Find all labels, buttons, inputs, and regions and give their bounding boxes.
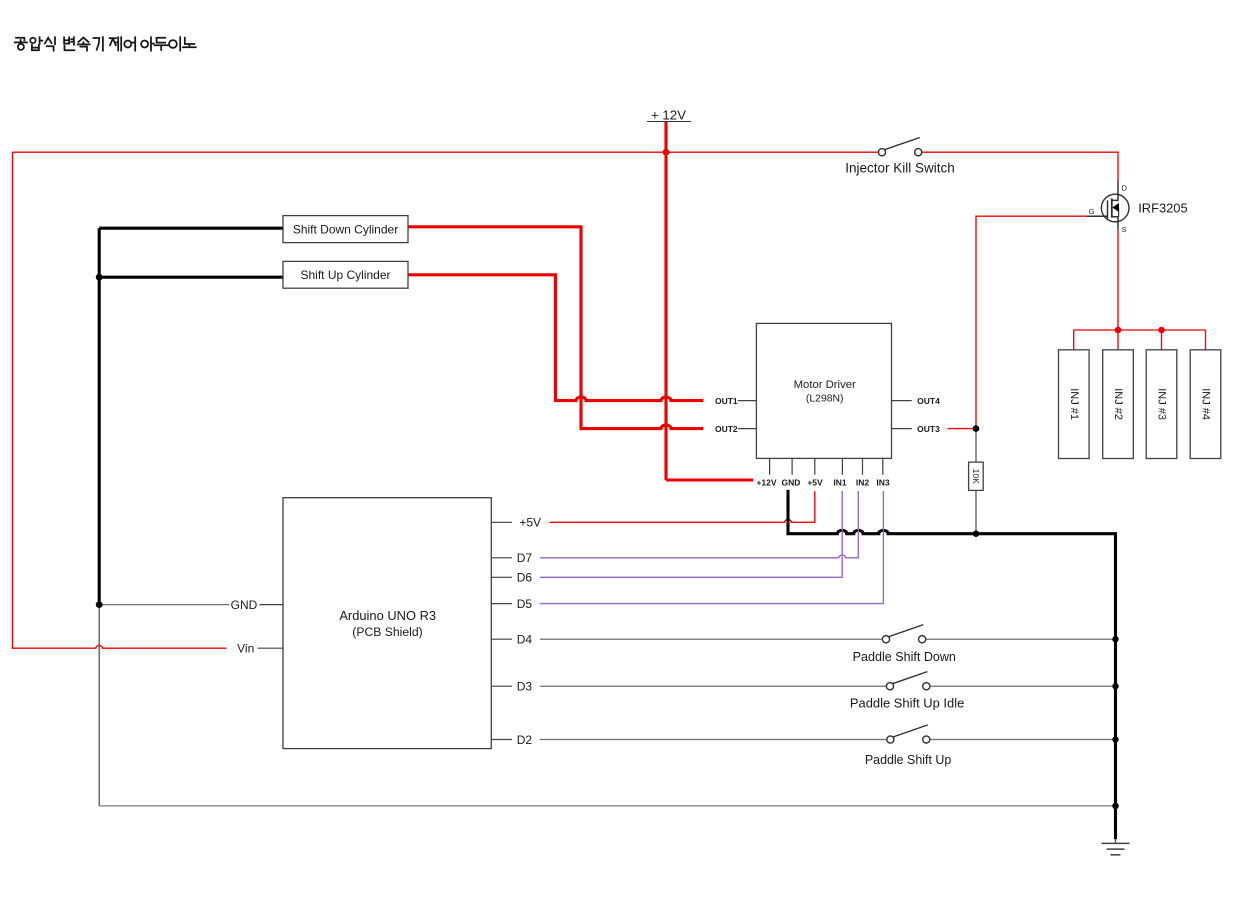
title glyph du (157, 38, 166, 43)
junction injector bus / source feed (1115, 327, 1122, 334)
wire D4 to paddle shift down switch (540, 638, 882, 640)
svg-text:D2: D2 (517, 733, 533, 747)
svg-text:Arduino UNO R3: Arduino UNO R3 (339, 608, 436, 623)
junction paddle shift down / ground rail (1112, 636, 1118, 642)
ground symbol (1102, 839, 1130, 855)
wire ground trunk to bottom ground bus (98, 605, 100, 806)
wire shift up cylinder to ground trunk (99, 276, 283, 279)
wire D7 to driver IN2 (540, 491, 858, 558)
pin stubs driver bottom (+12V GND +5V IN1 IN2 IN3) (770, 458, 883, 474)
injector INJ3 box (1146, 350, 1177, 459)
wire arduino +5V to driver +5V (550, 491, 815, 522)
svg-text:D6: D6 (517, 571, 533, 585)
svg-text:G: G (1089, 207, 1095, 216)
transistor Q1 IRF3205 N-MOSFET symbol (1087, 182, 1129, 230)
wire +12V rail to injector kill switch (13, 151, 879, 153)
wire OUT3 to MOSFET gate (948, 216, 1087, 428)
title glyph byeon (64, 37, 69, 43)
junction pulldown / ground rail (973, 530, 980, 537)
svg-text:(PCB Shield): (PCB Shield) (352, 625, 422, 639)
title glyph a (141, 41, 148, 48)
wire driver GND to ground rail and down to earth (788, 490, 1116, 839)
svg-text:D: D (1122, 184, 1128, 193)
svg-text:IN2: IN2 (856, 478, 870, 488)
pin stubs arduino left (GND Vin) (258, 605, 284, 649)
injector INJ2 box (1103, 350, 1134, 459)
title glyph ap (30, 38, 35, 43)
injector INJ4 box (1190, 350, 1221, 459)
wire paddle shift up idle switch to ground rail (930, 685, 1116, 687)
svg-text:Injector Kill Switch: Injector Kill Switch (845, 160, 955, 175)
wire paddle shift up switch to ground rail (930, 739, 1116, 741)
svg-text:+ 12V: + 12V (651, 108, 686, 123)
svg-text:INJ #2: INJ #2 (1112, 388, 1124, 420)
wire ground trunk to arduino GND pin (99, 604, 229, 606)
wire stub to INJ3 (1161, 330, 1163, 350)
wire injector supply bus (1074, 329, 1206, 331)
svg-text:+5V: +5V (519, 516, 541, 530)
svg-text:GND: GND (782, 478, 801, 488)
svg-text:Paddle Shift Up: Paddle Shift Up (865, 753, 952, 767)
wire left ground trunk vertical (98, 228, 101, 604)
title glyph i (169, 40, 177, 48)
wire stub to INJ2 (1117, 330, 1119, 350)
junction OUT3 / gate / pulldown (973, 425, 980, 432)
svg-text:10K: 10K (971, 469, 981, 484)
svg-text:INJ #4: INJ #4 (1200, 388, 1212, 420)
resistor R1 body (969, 462, 984, 490)
wire left border +12V down to Vin pin (13, 152, 227, 648)
switch SW1 injector kill switch (878, 138, 921, 156)
title glyph gi (94, 38, 100, 50)
junction paddle shift up / ground rail (1112, 736, 1118, 742)
svg-text:D4: D4 (517, 633, 533, 647)
title glyph no (185, 38, 195, 44)
svg-text:Paddle Shift Up Idle: Paddle Shift Up Idle (850, 696, 964, 711)
arduino U2 box (283, 498, 491, 749)
motor driver U1 box (756, 323, 891, 458)
title glyph eo (124, 41, 131, 48)
svg-text:+12V: +12V (756, 478, 776, 488)
switch SW2 paddle shift down (882, 625, 925, 643)
wire D2 to paddle shift up switch (540, 739, 887, 741)
wire bottom ground bus (99, 805, 1115, 807)
svg-text:GND: GND (231, 598, 258, 612)
svg-text:D5: D5 (517, 597, 533, 611)
junction injector bus / INJ3 stub (1158, 327, 1165, 334)
wire stub to INJ1 (1073, 330, 1075, 350)
junction ground trunk / arduino GND (96, 601, 103, 608)
svg-text:INJ #3: INJ #3 (1156, 388, 1168, 420)
pin stubs arduino right (+5V D7 D6 D5 D4 D3 D2) (491, 522, 512, 739)
title glyph sok (78, 38, 88, 42)
svg-text:IN3: IN3 (876, 478, 890, 488)
svg-text:Shift Down Cylinder: Shift Down Cylinder (293, 222, 398, 236)
svg-text:OUT1: OUT1 (715, 396, 738, 406)
svg-text:Shift Up Cylinder: Shift Up Cylinder (300, 268, 390, 282)
wire resistor R1 leads (975, 429, 977, 534)
junction cylinder ground trunk (96, 274, 103, 281)
svg-text:S: S (1122, 225, 1127, 234)
svg-text:Paddle Shift Down: Paddle Shift Down (853, 650, 956, 664)
wire shift down cylinder to OUT2 (408, 227, 703, 429)
title "공압식 변속기 제어 아두이노" (drawn as glyph strokes) (15, 37, 196, 50)
junction bottom bus / earth (1112, 803, 1119, 810)
svg-text:OUT3: OUT3 (917, 424, 940, 434)
wire injector kill switch to MOSFET drain (922, 152, 1118, 181)
wire shift up cylinder to OUT1 (408, 275, 703, 401)
wire D6 to driver IN1 (540, 491, 842, 577)
switch SW4 paddle shift up (887, 725, 930, 743)
wire paddle shift down switch to ground rail (926, 638, 1116, 640)
svg-text:IRF3205: IRF3205 (1138, 200, 1187, 215)
pin stubs driver left (OUT1 OUT2) (738, 401, 757, 429)
wire +12V feed vertical and into driver +12V pin (666, 122, 753, 480)
wire stub to INJ4 (1205, 330, 1207, 350)
svg-text:INJ #1: INJ #1 (1068, 388, 1080, 420)
svg-text:(L298N): (L298N) (806, 394, 844, 405)
svg-text:IN1: IN1 (833, 478, 847, 488)
title glyph sik (45, 38, 52, 44)
junction +12V rail tap (663, 149, 670, 156)
wire D3 to paddle shift up idle switch (540, 685, 886, 687)
pin stubs driver right (OUT4 OUT3) (892, 401, 912, 429)
svg-text:Vin: Vin (237, 642, 254, 656)
switch SW3 paddle shift up idle (886, 672, 930, 690)
injector INJ1 box (1059, 350, 1090, 459)
junction paddle shift up idle / ground rail (1112, 683, 1118, 689)
svg-text:Motor Driver: Motor Driver (794, 379, 856, 391)
title glyph gong (16, 38, 24, 40)
shift up cylinder box (283, 261, 408, 288)
svg-text:+5V: +5V (807, 478, 823, 488)
svg-text:D3: D3 (517, 680, 533, 694)
title glyph je (110, 37, 116, 39)
svg-text:OUT4: OUT4 (917, 396, 940, 406)
svg-text:OUT2: OUT2 (715, 424, 738, 434)
shift down cylinder box (283, 216, 408, 243)
wire MOSFET source down to injector bus (1117, 230, 1119, 330)
svg-text:D7: D7 (517, 551, 533, 565)
wire shift down cylinder to ground trunk (99, 227, 283, 230)
wire D5 to driver IN3 (540, 491, 883, 604)
